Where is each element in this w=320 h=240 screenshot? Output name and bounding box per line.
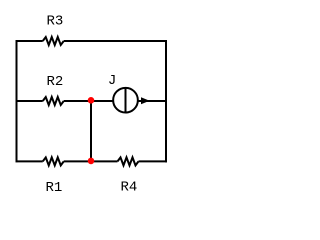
wire: middle branch left segment xyxy=(16,100,43,102)
resistor R4 xyxy=(118,157,139,165)
svg-text:J: J xyxy=(108,73,116,89)
resistor R2 xyxy=(43,97,64,105)
wire: middle branch segment from R2 to current source xyxy=(64,100,114,102)
wire: bottom side right segment xyxy=(139,160,168,162)
wire: left vertical side of outer loop xyxy=(16,40,18,162)
svg-text:R4: R4 xyxy=(121,180,138,196)
wire: right vertical side of outer loop xyxy=(165,40,167,162)
wire: middle vertical wire between junctions xyxy=(90,101,92,161)
wire: top side left segment xyxy=(16,40,43,42)
resistor R3 xyxy=(43,37,64,45)
current source J circle xyxy=(113,88,138,113)
junction node dot at bottom branch xyxy=(88,158,95,165)
svg-text:R3: R3 xyxy=(47,14,64,30)
resistor R1 xyxy=(43,157,64,165)
current source J internal bar xyxy=(125,88,127,113)
svg-text:R2: R2 xyxy=(47,74,64,90)
junction node dot at middle branch xyxy=(88,97,95,104)
current source J arrowhead xyxy=(141,97,150,104)
wire: top side right segment xyxy=(64,40,167,42)
wire: bottom side middle segment xyxy=(64,160,118,162)
wire: bottom side left segment xyxy=(16,160,43,162)
svg-text:R1: R1 xyxy=(46,180,63,196)
wire: middle branch segment from current source to right side xyxy=(138,100,166,102)
